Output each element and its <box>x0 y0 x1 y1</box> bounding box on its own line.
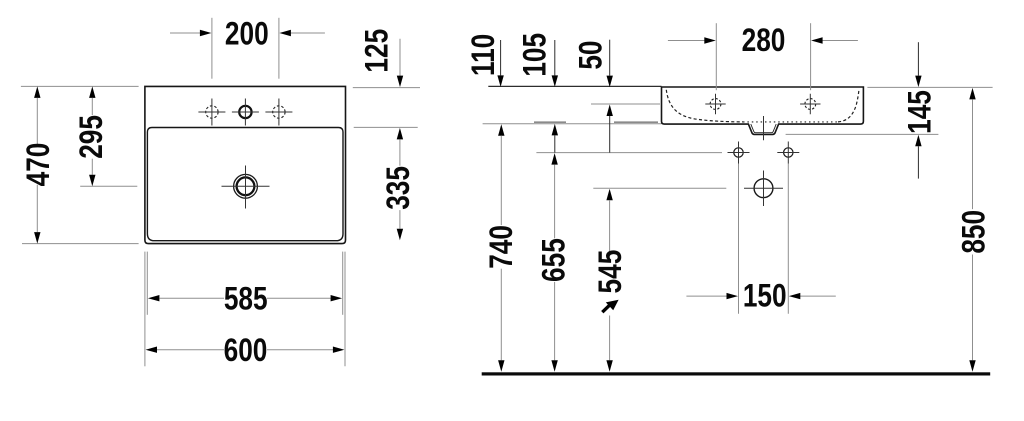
dim 585 extension line right <box>342 252 344 315</box>
faucet hole right (front view) <box>805 99 816 110</box>
dim 200 extension line left <box>211 18 213 79</box>
dim 600 extension line left <box>144 252 146 367</box>
dim 200 extension line right <box>278 18 280 79</box>
svg-text:335: 335 <box>382 166 417 210</box>
adjustable height arrow symbol <box>602 300 618 312</box>
dim 150 left leader <box>686 295 727 297</box>
dim 850 upper part <box>969 88 975 100</box>
extension line below left fixing hole <box>738 164 740 314</box>
dim 600 right arrow <box>267 349 334 351</box>
dim 335 upper segment <box>397 128 403 139</box>
svg-text:280: 280 <box>742 24 786 59</box>
dim 655 lower part <box>554 282 556 360</box>
faucet hole center (top view) <box>239 106 251 118</box>
dim 50 up arrow and tail <box>607 105 613 117</box>
svg-text:470: 470 <box>22 143 57 187</box>
basin outer rim rectangle (top view) <box>145 86 346 243</box>
drain hole circle (front view) <box>754 179 773 198</box>
svg-text:105: 105 <box>518 33 553 77</box>
inner bowl top level extension line <box>354 126 418 128</box>
dim 740 upper part <box>498 124 504 136</box>
fixing holes level extension line <box>536 152 722 154</box>
dim 280 left leader <box>668 40 705 42</box>
dim 585 extension line left <box>146 252 148 315</box>
svg-text:600: 600 <box>224 334 268 369</box>
hidden bowl bottom dash 2 <box>614 121 658 123</box>
dim 200 left leader <box>170 32 201 34</box>
fixing hole right <box>784 148 793 157</box>
rim level extension line right of basin <box>867 86 992 88</box>
faucet hole left (front view) <box>710 99 721 110</box>
basin inner bowl rounded rectangle <box>147 128 343 241</box>
siphon trap centerline <box>763 116 765 140</box>
dim 850 lower part <box>972 255 974 361</box>
top rim extension line far left <box>21 85 139 87</box>
svg-text:150: 150 <box>743 279 787 314</box>
dim 600 left arrow <box>146 347 158 353</box>
drain inner circle <box>237 177 255 195</box>
svg-text:200: 200 <box>225 17 269 52</box>
dim 125 leader <box>399 39 401 76</box>
dim 280 right leader <box>822 40 858 42</box>
svg-text:545: 545 <box>593 250 628 294</box>
dim 740 lower part <box>500 269 502 361</box>
drain level extension line left <box>80 185 137 187</box>
dim 545 upper part <box>606 189 612 201</box>
siphon trap inner line <box>751 124 776 133</box>
trap bottom level extension line <box>786 133 939 135</box>
svg-text:295: 295 <box>75 115 110 159</box>
drain crosshair <box>222 166 270 209</box>
faucet hole left (top view) <box>206 106 218 118</box>
dim 200 right leader <box>290 32 325 34</box>
faucet level extension line <box>591 103 660 105</box>
dim 150 right leader <box>799 295 836 297</box>
dim 335 lower segment <box>399 210 401 229</box>
dim 280 extension line left <box>715 23 717 90</box>
floor line <box>482 372 991 375</box>
basin body outline with siphon trap <box>662 87 864 134</box>
drain level extension line <box>593 187 726 189</box>
drain outer circle <box>234 174 258 198</box>
svg-text:50: 50 <box>574 41 609 70</box>
svg-text:655: 655 <box>537 238 572 282</box>
dim 280 extension line right <box>810 23 812 90</box>
dim 295 upper segment <box>89 86 95 98</box>
dim 655 upper part <box>551 153 557 165</box>
svg-text:145: 145 <box>903 90 938 134</box>
svg-text:850: 850 <box>957 210 992 254</box>
faucet hole right (top view) <box>273 106 285 118</box>
basin underside extension line <box>483 123 662 125</box>
fixing hole left <box>734 148 743 157</box>
hidden bowl profile dashed curve right <box>838 90 859 122</box>
dim 545 lower part <box>609 316 611 361</box>
dim 145 lower leader <box>915 135 921 147</box>
drain hole crosshair (front view) <box>744 171 783 207</box>
dim 470 upper segment <box>34 86 40 98</box>
dim 105 up arrow and tail <box>552 124 558 135</box>
svg-text:585: 585 <box>224 282 268 317</box>
dim 600 extension line right <box>344 252 346 367</box>
hidden bowl bottom fine dashed line <box>743 121 838 123</box>
dim 470 lower segment <box>36 185 38 232</box>
svg-text:125: 125 <box>360 29 395 73</box>
dim 585 right arrow <box>267 297 331 299</box>
rim level extension line right of left view <box>353 87 420 89</box>
extension line below right fixing hole <box>787 164 789 314</box>
svg-text:740: 740 <box>485 225 520 269</box>
svg-text:110: 110 <box>467 34 502 76</box>
hidden bowl bottom dash 1 <box>534 121 566 123</box>
dim 105 leader <box>554 40 556 75</box>
dim 50 leader <box>609 40 611 76</box>
dim 295 lower segment <box>91 159 93 175</box>
dim 145 upper leader <box>917 42 919 75</box>
hidden bowl profile dashed curve left <box>666 90 743 122</box>
bottom rim extension line far left <box>22 243 139 245</box>
dim 110 leader <box>500 40 502 75</box>
rim level line left of basin <box>488 85 661 87</box>
dim 585 left arrow <box>148 295 160 301</box>
